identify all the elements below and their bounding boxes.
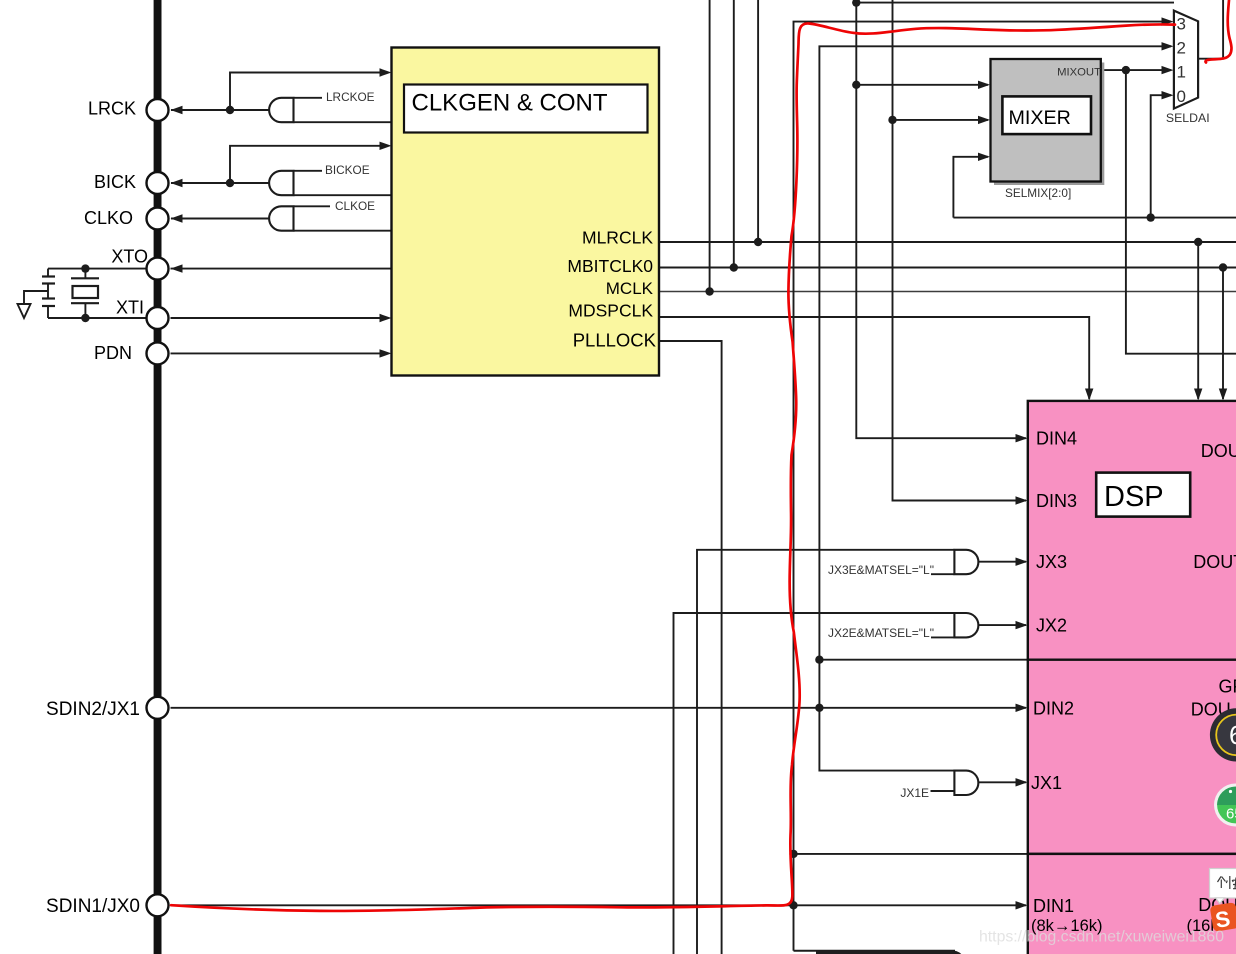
- wire vertical to MLRCLK: [757, 0, 759, 242]
- arrow into pin CLKO: [171, 214, 183, 222]
- svg-text:0: 0: [1177, 87, 1186, 106]
- block CLKGEN & CONT: [392, 48, 660, 376]
- crystal X1: [84, 269, 86, 279]
- svg-text:JX2E&MATSEL="L": JX2E&MATSEL="L": [828, 626, 934, 640]
- svg-text:JX3E&MATSEL="L": JX3E&MATSEL="L": [828, 563, 934, 577]
- dark box corner (cropped page element): [816, 952, 964, 954]
- svg-text:DIN4: DIN4: [1036, 429, 1077, 449]
- arrow mux input 3: [1162, 17, 1174, 25]
- arrow into pin XTO: [171, 264, 183, 272]
- pin LRCK: [147, 99, 169, 121]
- svg-text:https://blog.csdn.net/xuweiwei: https://blog.csdn.net/xuweiwei1860: [979, 929, 1224, 946]
- svg-text:MLRCLK: MLRCLK: [582, 228, 653, 248]
- wire MDSPCLK net: [659, 317, 1089, 399]
- arrow MIXER input 3: [978, 153, 990, 161]
- wire PDN row: [171, 352, 389, 354]
- node MIXOUT junction: [1122, 66, 1130, 74]
- pin SDIN1/JX0: [147, 894, 169, 916]
- wire SDIN1 to mux input 3 (vertical riser): [794, 22, 1172, 951]
- wire top horizontal to mux: [856, 2, 1174, 4]
- wire MCLK net: [659, 291, 1236, 293]
- wire BICK row: [171, 182, 269, 184]
- svg-text:DOUT: DOUT: [1193, 552, 1236, 572]
- wire MIXOUT to mux input 1: [1101, 69, 1171, 71]
- arrow mux input 2: [1162, 42, 1174, 50]
- badge green circle 65: [1214, 784, 1236, 827]
- svg-text:DIN3: DIN3: [1036, 491, 1077, 511]
- node MLRCLK drop junction: [1194, 238, 1202, 246]
- node LRCK junction: [226, 106, 234, 114]
- svg-text:SELDAI: SELDAI: [1166, 111, 1210, 125]
- svg-text:1: 1: [1177, 63, 1186, 82]
- arrow into block LRCK loop: [380, 68, 392, 76]
- node top line junction: [852, 0, 860, 7]
- svg-text:BICK: BICK: [94, 172, 136, 192]
- svg-text:JX1: JX1: [1031, 773, 1062, 793]
- tooltip bubble: [1210, 869, 1236, 899]
- svg-text:MIXOUT: MIXOUT: [1057, 67, 1101, 79]
- wire MIXER input 2: [893, 119, 989, 121]
- pin XTO: [147, 258, 169, 280]
- arrow JX1: [1016, 778, 1028, 786]
- svg-text:LRCK: LRCK: [88, 99, 136, 119]
- block DSP (pink): [1028, 401, 1236, 660]
- node MBITCLK0 junction: [730, 263, 738, 271]
- arrow mux input 1: [1162, 66, 1174, 74]
- wire vertical to DIN3: [893, 0, 1027, 501]
- svg-text:MCLK: MCLK: [606, 279, 654, 298]
- node XTI junction: [81, 314, 89, 322]
- node 8k wire junction: [789, 850, 797, 858]
- wire MIXER input 3 SELMIX: [953, 157, 988, 218]
- wire block boundary from JX1 riser: [819, 659, 1030, 661]
- capacitor C1 (XTO side): [47, 269, 49, 277]
- svg-text:XTO: XTO: [111, 247, 148, 267]
- arrow MLRCLK into DSP top: [1194, 389, 1202, 401]
- wire vertical to MBITCLK0: [733, 0, 735, 268]
- pin SDIN2/JX1: [147, 697, 169, 719]
- svg-text:LRCKOE: LRCKOE: [326, 90, 375, 104]
- ground: [24, 291, 48, 304]
- CSDN logo: [1210, 902, 1236, 933]
- svg-text:PDN: PDN: [94, 343, 132, 363]
- svg-text:PLLLOCK: PLLLOCK: [573, 330, 657, 351]
- svg-text:XTI: XTI: [116, 298, 144, 318]
- arrow into block BICK loop: [380, 142, 392, 150]
- buffer gate LRCK with enable LRCKOE: [269, 98, 293, 122]
- wire MBITCLK0 net: [659, 267, 1236, 269]
- pin CLKO: [147, 208, 169, 230]
- wire into 8k-16k block: [794, 853, 1031, 855]
- svg-text:BICKOE: BICKOE: [325, 163, 370, 177]
- wire mux output: [1198, 0, 1223, 59]
- wire SDIN2 to mux input 2 (vertical riser): [819, 46, 1171, 770]
- arrow MDSPCLK into DSP top: [1085, 389, 1093, 401]
- wire MLRCLK drop to DSP: [1197, 242, 1199, 399]
- svg-text:6: 6: [1229, 720, 1236, 750]
- arrow DIN1: [1016, 901, 1028, 909]
- node MBITCLK0 drop junction: [1219, 263, 1227, 271]
- arrow into block XTI: [380, 314, 392, 322]
- and-gate JX3: [954, 550, 978, 574]
- pin BICK: [147, 172, 169, 194]
- svg-text:MIXER: MIXER: [1009, 107, 1071, 129]
- svg-text:CLKGEN & CONT: CLKGEN & CONT: [412, 90, 608, 117]
- arrow MIXER input 1: [978, 81, 990, 89]
- node BICK junction: [226, 179, 234, 187]
- svg-text:MDSPCLK: MDSPCLK: [568, 301, 653, 321]
- node XTO junction: [81, 264, 89, 272]
- arrow mux input 0: [1162, 91, 1174, 99]
- wire XTI row: [48, 317, 147, 319]
- svg-text:SDIN1/JX0: SDIN1/JX0: [46, 896, 140, 917]
- svg-text:2: 2: [1177, 39, 1186, 58]
- svg-text:DOUT: DOUT: [1201, 441, 1236, 461]
- wire top net to DIN4: [856, 0, 1026, 438]
- badge dark circle 6: [1210, 708, 1236, 761]
- node MIXER in1 junction: [852, 81, 860, 89]
- wire SELMIX horizontal run: [953, 217, 1236, 219]
- wire JX2 input leg: [674, 613, 955, 954]
- wire MIXER input 1: [856, 84, 988, 86]
- red annotation: mux output trace: [1206, 0, 1232, 63]
- wire LRCK row: [171, 109, 269, 111]
- capacitor C2 (XTI side): [42, 297, 55, 299]
- buffer gate BICK with enable BICKOE: [269, 171, 293, 195]
- arrow JX2: [1016, 621, 1028, 629]
- svg-text:DIN1: DIN1: [1033, 896, 1074, 916]
- node JX1 riser top junction: [815, 656, 823, 664]
- wire DIN2 / SDIN2 row: [171, 707, 1027, 709]
- and-gate JX2: [954, 613, 978, 637]
- svg-text:MBITCLK0: MBITCLK0: [567, 256, 653, 276]
- svg-text:SELMIX[2:0]: SELMIX[2:0]: [1005, 186, 1071, 200]
- svg-text:DSP: DSP: [1104, 481, 1164, 513]
- mux SELDAI: [1174, 11, 1198, 109]
- svg-text:GP: GP: [1219, 676, 1236, 696]
- wire DIN1 / SDIN1 row: [171, 904, 1027, 906]
- wire mux input 0: [1151, 95, 1171, 217]
- svg-text:65: 65: [1226, 806, 1236, 823]
- wire PLLLOCK net: [659, 341, 722, 954]
- block MIXER: [994, 63, 1104, 186]
- svg-text:DIN2: DIN2: [1033, 698, 1074, 718]
- node DIN2 junction: [815, 704, 823, 712]
- wire JX3 input leg: [697, 550, 954, 954]
- node MCLK junction: [705, 287, 713, 295]
- wire XTO row: [48, 268, 147, 270]
- arrow into block PDN: [380, 349, 392, 357]
- node DIN1 junction: [789, 901, 797, 909]
- wire MIXOUT vertical leg: [1126, 70, 1236, 354]
- node SELMIX junction: [1147, 213, 1155, 221]
- and-gate JX1: [954, 771, 978, 795]
- red annotation: SDIN1 to mux3 path: [171, 23, 1175, 911]
- svg-text:JX2: JX2: [1036, 616, 1067, 636]
- svg-text:JX1E: JX1E: [900, 786, 929, 800]
- bus (left vertical pin rail): [154, 0, 162, 954]
- wire MLRCLK net: [659, 241, 1236, 243]
- arrow DIN3: [1016, 496, 1028, 504]
- arrow MIXER input 2: [978, 116, 990, 124]
- block SRC 8k-16k (pink bottom): [1028, 854, 1236, 954]
- arrow into pin LRCK: [171, 106, 183, 114]
- svg-text:CLKO: CLKO: [84, 208, 133, 228]
- arrow DIN4: [1016, 434, 1028, 442]
- svg-text:3: 3: [1177, 14, 1186, 33]
- arrow into pin BICK: [171, 179, 183, 187]
- svg-text:SDIN2/JX1: SDIN2/JX1: [46, 699, 140, 720]
- arrow DIN2: [1016, 704, 1028, 712]
- node MIXER in2 junction: [888, 116, 896, 124]
- svg-text:JX3: JX3: [1036, 552, 1067, 572]
- arrow JX3: [1016, 558, 1028, 566]
- buffer gate CLKO with enable CLKOE: [269, 206, 293, 230]
- pin XTI: [147, 307, 169, 329]
- block DAI (pink middle): [1028, 660, 1236, 854]
- wire JX0 gate input (cropped at bottom): [794, 950, 956, 952]
- wire CLKO row: [171, 218, 269, 220]
- wire MBITCLK0 drop to DSP: [1222, 268, 1224, 400]
- svg-text:CLKOE: CLKOE: [335, 199, 375, 213]
- wire vertical to MCLK: [709, 0, 711, 292]
- pin PDN: [147, 342, 169, 364]
- node MLRCLK junction: [754, 238, 762, 246]
- arrow MBITCLK0 into DSP top: [1219, 389, 1227, 401]
